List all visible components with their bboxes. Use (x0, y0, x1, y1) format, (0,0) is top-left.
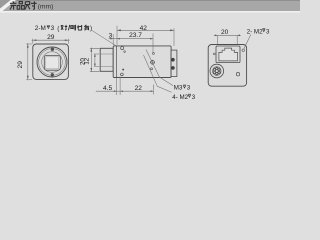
side face hole b (152, 52, 154, 54)
front flange circle inner (39, 49, 66, 76)
power connector inner (213, 67, 222, 76)
front body (33, 44, 69, 79)
power connector star pins (214, 67, 221, 74)
side left dim line 12 (94, 54, 96, 66)
side left dim line 20 (90, 48, 92, 73)
label 2- M2 depth 3 (247, 28, 270, 35)
rear screw top (dark) (171, 58, 175, 62)
rear bump (171, 50, 177, 76)
front left dim line 29 (27, 43, 29, 80)
side dim line 42 (117, 29, 174, 31)
side bottom dim line (96, 90, 154, 92)
svg-text:3: 3 (109, 32, 113, 39)
RJ45 outer (216, 46, 240, 63)
front sensor window (44, 55, 60, 70)
front thread circle (42, 52, 63, 73)
header title CJK strokes (10, 1, 37, 9)
white strip under header (0, 11, 300, 13)
header white slash (0, 0, 16, 13)
svg-text:3: 3 (266, 28, 270, 35)
side body (113, 46, 171, 78)
side face hole c2 (151, 68, 153, 70)
leader to M3 label (146, 50, 173, 86)
rear dim ext lines (218, 36, 238, 44)
svg-text:29: 29 (17, 61, 24, 69)
front screw bottom (51, 73, 54, 76)
svg-text:3: 3 (51, 25, 55, 32)
side face hole B (M3) (151, 60, 155, 64)
side face hole e (121, 73, 124, 76)
svg-text:22: 22 (135, 85, 143, 92)
front screw top (51, 48, 54, 51)
LED (236, 73, 239, 76)
leader from 2-M3 label to side view hole (91, 30, 124, 51)
svg-text:20: 20 (221, 29, 229, 36)
front top dim line 29 (32, 39, 70, 41)
svg-text:3: 3 (192, 94, 196, 101)
small hole left of RJ45 (213, 53, 215, 55)
screw top-right (242, 49, 244, 51)
rear body (208, 45, 246, 87)
side face hole A (121, 47, 124, 50)
svg-text:12: 12 (84, 57, 91, 64)
svg-text:42: 42 (140, 25, 148, 32)
header dark corner triangle (0, 0, 11, 9)
front flange circle outer (37, 47, 67, 77)
label M3 depth 3 (174, 85, 191, 92)
svg-text:(mm): (mm) (38, 4, 54, 11)
svg-text:23.7: 23.7 (129, 32, 142, 39)
RJ45 jack profile (219, 48, 238, 61)
svg-text:M3: M3 (174, 85, 183, 92)
svg-text:2-M: 2-M (35, 25, 46, 32)
side left dim ext lines (90, 48, 100, 71)
lens barrel (100, 48, 113, 71)
svg-text:4.5: 4.5 (103, 85, 112, 92)
side dim line 3/23.7 (109, 38, 153, 40)
front top dim extension lines (33, 39, 69, 44)
svg-text:3: 3 (187, 85, 191, 92)
header bar (0, 0, 300, 11)
side face hole d (122, 69, 124, 71)
label 4-M2 depth 3 (172, 94, 195, 101)
front sensor inner rect (46, 57, 59, 69)
barrel bore lines (100, 54, 113, 66)
power connector outer (210, 64, 224, 78)
front plate line (116, 46, 118, 78)
leader from 2-M2 label to screw (244, 35, 251, 50)
side bottom dim ext lines (117, 77, 154, 95)
side top dim ext lines (113, 26, 174, 53)
rear screw bottom (dark) (171, 66, 175, 70)
svg-text:29: 29 (47, 34, 55, 41)
leader to 4-M2 label (144, 55, 172, 92)
front left dim extension lines (26, 44, 32, 79)
side face hole a2 (124, 51, 126, 53)
svg-text:4- M2: 4- M2 (172, 94, 188, 101)
rear dim line 20 (214, 34, 241, 36)
svg-text:): ) (90, 25, 92, 32)
label 2-M3 (opposite side too) (35, 25, 92, 33)
svg-text:2- M2: 2- M2 (247, 28, 263, 35)
